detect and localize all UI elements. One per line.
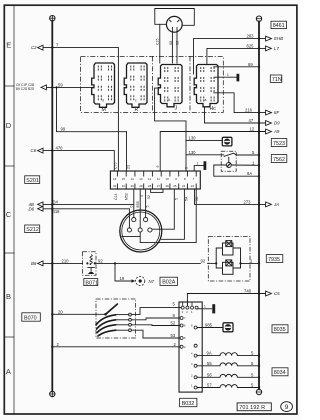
svg-text:B02A: B02A xyxy=(162,280,176,286)
compressor unit 7935 xyxy=(208,236,250,281)
svg-text:748: 748 xyxy=(244,289,252,294)
left supply bus xyxy=(51,21,53,391)
svg-text:C5: C5 xyxy=(274,291,280,296)
svg-text:R: R xyxy=(135,107,139,113)
zone tick 2 xyxy=(4,165,14,167)
right arrows xyxy=(266,36,272,296)
svg-text:E: E xyxy=(6,41,11,50)
label B071 xyxy=(84,279,98,287)
svg-text:14: 14 xyxy=(131,177,135,181)
svg-text:5: 5 xyxy=(146,206,150,208)
wire mid exit xyxy=(162,189,185,239)
svg-text:Hc: Hc xyxy=(210,106,217,112)
connector R xyxy=(124,63,147,107)
wire 47 from Hc tab xyxy=(205,107,266,123)
right supply bus xyxy=(258,22,260,390)
svg-text:92: 92 xyxy=(201,258,206,263)
svg-text:273: 273 xyxy=(244,199,252,204)
svg-text:9: 9 xyxy=(285,404,289,411)
wire rows rotary to B032 xyxy=(132,308,182,315)
svg-text:8034: 8034 xyxy=(274,370,286,376)
inductor L4 xyxy=(220,385,237,388)
svg-text:9A: 9A xyxy=(207,351,212,356)
svg-text:15: 15 xyxy=(122,177,126,181)
wire inductor rows xyxy=(197,355,220,357)
svg-text:M: M xyxy=(102,107,106,113)
svg-text:d: d xyxy=(102,99,104,103)
svg-text:L7: L7 xyxy=(274,46,279,51)
svg-text:23: 23 xyxy=(191,184,195,188)
svg-text:52: 52 xyxy=(171,321,176,326)
svg-text:N7: N7 xyxy=(149,279,155,284)
inductor L1 xyxy=(220,353,237,356)
svg-text:8461: 8461 xyxy=(273,23,285,29)
svg-text:1: 1 xyxy=(197,162,199,166)
wire 470 xyxy=(43,151,115,171)
svg-text:12: 12 xyxy=(250,127,255,132)
svg-text:B032: B032 xyxy=(182,401,195,407)
svg-text:29: 29 xyxy=(139,184,143,188)
svg-text:20: 20 xyxy=(58,309,63,314)
svg-text:71N: 71N xyxy=(272,77,282,83)
svg-text:23: 23 xyxy=(126,165,130,169)
svg-text:47: 47 xyxy=(249,118,254,123)
svg-text:C14: C14 xyxy=(114,194,118,200)
wire into pin xyxy=(133,189,135,218)
heater resistor B071 xyxy=(83,252,97,275)
svg-text:7935: 7935 xyxy=(268,257,280,263)
svg-text:985: 985 xyxy=(205,323,213,328)
svg-text:C2: C2 xyxy=(31,45,37,50)
black T terminal 1 (top right of Hc) xyxy=(214,73,240,81)
svg-text:52: 52 xyxy=(147,195,151,199)
terminal bottom-left plus xyxy=(50,391,55,396)
wire 7 exit E xyxy=(43,48,119,171)
wire pin drop c xyxy=(139,189,141,228)
svg-text:S201: S201 xyxy=(26,178,39,184)
svg-text:B070: B070 xyxy=(24,315,37,321)
wire 210 heater feed xyxy=(43,262,83,264)
svg-text:C75: C75 xyxy=(114,163,118,169)
svg-text:59: 59 xyxy=(58,82,63,87)
wire 59 branch down xyxy=(57,87,127,131)
thermo switch N7 xyxy=(136,276,145,285)
connector J xyxy=(158,65,182,107)
svg-text:69: 69 xyxy=(248,62,253,67)
wires group xyxy=(43,39,266,388)
svg-text:S2: S2 xyxy=(176,41,180,45)
terminal top-right minus xyxy=(256,16,261,21)
connector B032 xyxy=(179,302,202,392)
wire 2 to B032 xyxy=(52,346,180,348)
wire motor drop left xyxy=(159,24,161,63)
svg-text:10: 10 xyxy=(166,177,170,181)
inductor L3 xyxy=(220,374,237,377)
svg-text:470: 470 xyxy=(56,146,64,151)
wire 19 to N7 xyxy=(115,263,134,281)
svg-text:24: 24 xyxy=(182,184,186,188)
svg-text:92: 92 xyxy=(98,258,103,263)
svg-text:EHB: EHB xyxy=(274,36,283,41)
svg-text:28: 28 xyxy=(148,184,152,188)
svg-text:31: 31 xyxy=(122,184,126,188)
svg-text:32: 32 xyxy=(113,184,117,188)
svg-text:C15: C15 xyxy=(156,39,160,45)
wire 20 to rotary switch xyxy=(52,313,105,315)
wire 69 xyxy=(214,66,259,68)
wire 216 xyxy=(214,93,266,113)
wire right pin exit xyxy=(152,189,174,229)
svg-text:9A: 9A xyxy=(247,171,252,176)
svg-text:8035: 8035 xyxy=(274,327,286,333)
svg-text:99: 99 xyxy=(61,127,66,132)
wire 5 switch to bus xyxy=(234,153,259,155)
svg-text:56: 56 xyxy=(207,372,212,377)
splice icon G1 xyxy=(222,137,232,146)
wire chord xyxy=(122,232,140,236)
svg-text:B071: B071 xyxy=(85,280,98,286)
svg-text:210: 210 xyxy=(62,258,70,263)
wire exit 418 xyxy=(43,209,130,228)
wire motor top loop xyxy=(155,9,195,64)
connector enclosure dash-dot box xyxy=(81,56,224,112)
label B070 xyxy=(22,313,41,322)
svg-text:JA: JA xyxy=(273,202,279,207)
wire 985 xyxy=(197,327,223,329)
svg-text:53: 53 xyxy=(171,333,176,338)
wire switch rows xyxy=(116,314,129,316)
connector Hc xyxy=(194,65,218,107)
svg-text:130: 130 xyxy=(189,150,197,155)
svg-text:57: 57 xyxy=(207,383,212,388)
round connector G xyxy=(120,210,162,252)
wire exit D4 xyxy=(43,203,134,205)
svg-text:5: 5 xyxy=(175,198,179,200)
svg-text:283: 283 xyxy=(247,34,255,39)
svg-text:625: 625 xyxy=(247,43,255,48)
wire motor pin drop 1 xyxy=(171,32,173,63)
wire number labels xyxy=(53,34,256,388)
wire 1 7935 to bus xyxy=(241,262,260,264)
zone tick 3 xyxy=(4,252,14,254)
svg-text:S212: S212 xyxy=(26,227,39,233)
wire 1 switch xyxy=(231,164,259,166)
svg-text:B: B xyxy=(6,292,11,301)
svg-text:B55: B55 xyxy=(136,201,140,207)
svg-text:A9: A9 xyxy=(273,129,280,134)
wire 12 to bus xyxy=(160,132,265,172)
svg-text:D: D xyxy=(6,121,12,130)
svg-text:130: 130 xyxy=(189,136,197,141)
destination labels xyxy=(29,36,284,296)
connector M xyxy=(92,63,115,107)
wire 748 xyxy=(187,294,265,307)
label B032 xyxy=(180,398,197,407)
svg-text:A: A xyxy=(6,367,11,376)
svg-text:25: 25 xyxy=(173,184,177,188)
rotated wire labels above strip xyxy=(114,163,199,208)
svg-text:216: 216 xyxy=(245,108,253,113)
svg-text:D6: D6 xyxy=(29,206,35,211)
svg-text:b: b xyxy=(169,98,171,102)
wire 625 xyxy=(207,48,266,64)
svg-text:C6: C6 xyxy=(31,148,37,153)
wire motor pin drop 2 xyxy=(176,32,178,63)
inner margin line xyxy=(13,5,15,414)
svg-text:B9 C2D B2S: B9 C2D B2S xyxy=(16,87,34,91)
svg-text:0: 0 xyxy=(130,206,134,208)
black T terminal 2 (right of strip) xyxy=(194,161,206,171)
svg-text:8F: 8F xyxy=(274,110,279,115)
svg-text:418: 418 xyxy=(53,209,61,214)
wire switch loop xyxy=(214,165,259,176)
svg-text:30: 30 xyxy=(131,184,135,188)
wire 283 xyxy=(194,39,266,74)
wire 130 branch xyxy=(186,139,222,141)
switch unit with thermal contact (dashed box right) xyxy=(221,151,236,171)
zone tick 4 xyxy=(4,336,14,338)
wire 130 feed from J left pin xyxy=(155,88,186,171)
svg-text:16: 16 xyxy=(113,177,117,181)
splice icon G2 xyxy=(223,323,233,332)
svg-text:701 192 R: 701 192 R xyxy=(239,405,265,411)
wire pin drop xyxy=(145,189,147,218)
svg-text:J: J xyxy=(175,106,178,112)
strip connector X1 xyxy=(110,171,200,192)
terminal top-left plus xyxy=(50,16,55,21)
svg-text:7523: 7523 xyxy=(273,141,285,147)
zone tick 1 xyxy=(4,85,14,87)
tiny multiline label xyxy=(16,83,34,91)
svg-text:5A: 5A xyxy=(185,196,189,201)
svg-text:19: 19 xyxy=(120,276,125,281)
black T terminal 3 (top of B032) xyxy=(197,304,216,313)
rotary switch B070 xyxy=(96,299,136,338)
terminal bottom-right minus xyxy=(256,389,261,394)
svg-text:S8: S8 xyxy=(169,41,173,45)
svg-text:7562: 7562 xyxy=(273,157,285,163)
svg-text:a: a xyxy=(205,98,207,102)
svg-text:D4: D4 xyxy=(53,199,59,204)
svg-text:C: C xyxy=(6,210,12,219)
svg-text:13: 13 xyxy=(139,177,143,181)
wire 92 into 7935 xyxy=(208,262,217,264)
inductor L2 xyxy=(220,363,237,366)
side label boxes xyxy=(25,21,288,376)
motor M top (radio unit) xyxy=(166,16,182,32)
wire R drop xyxy=(126,132,128,171)
wire center pin down xyxy=(140,189,196,243)
svg-text:26: 26 xyxy=(166,184,170,188)
svg-text:M52: M52 xyxy=(125,193,129,200)
svg-text:11: 11 xyxy=(157,177,160,181)
svg-text:1: 1 xyxy=(204,304,206,308)
svg-text:27: 27 xyxy=(157,184,161,188)
wire 273 xyxy=(195,189,266,204)
svg-text:5: 5 xyxy=(185,167,189,169)
svg-text:1: 1 xyxy=(227,73,229,77)
title block xyxy=(237,402,292,412)
svg-text:12: 12 xyxy=(148,177,152,181)
svg-text:55: 55 xyxy=(207,361,212,366)
left arrows xyxy=(38,45,47,266)
svg-text:B6: B6 xyxy=(31,261,37,266)
svg-text:5C: 5C xyxy=(195,196,199,201)
svg-text:4: 4 xyxy=(140,195,144,197)
wire 59 xyxy=(43,86,94,88)
svg-text:D9: D9 xyxy=(274,121,280,126)
svg-text:9: 9 xyxy=(156,166,160,168)
label B02A xyxy=(160,277,178,285)
